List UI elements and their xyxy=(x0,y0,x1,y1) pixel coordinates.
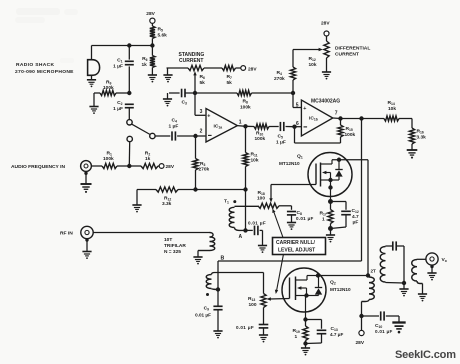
svg-text:0.01 μF: 0.01 μF xyxy=(236,325,254,330)
svg-text:28V: 28V xyxy=(248,66,257,72)
svg-text:100k: 100k xyxy=(240,104,251,110)
svg-text:10k: 10k xyxy=(388,106,396,112)
svg-text:2T: 2T xyxy=(371,268,377,273)
svg-text:1: 1 xyxy=(322,217,325,223)
svg-text:1 μF: 1 μF xyxy=(113,106,123,112)
svg-text:μF: μF xyxy=(353,220,359,226)
svg-text:1: 1 xyxy=(239,120,242,126)
svg-text:RADIO SHACK: RADIO SHACK xyxy=(16,62,54,68)
svg-text:CURRENT: CURRENT xyxy=(179,58,203,64)
svg-text:7: 7 xyxy=(335,111,338,117)
svg-text:5k: 5k xyxy=(227,80,233,86)
svg-text:1: 1 xyxy=(295,334,298,340)
svg-text:A: A xyxy=(239,234,243,240)
svg-text:0.01 μF: 0.01 μF xyxy=(248,220,266,225)
svg-text:TRIFILAR: TRIFILAR xyxy=(164,243,186,249)
svg-text:0.01 μF: 0.01 μF xyxy=(296,216,314,221)
svg-text:RF IN: RF IN xyxy=(60,231,73,237)
svg-text:28V: 28V xyxy=(166,164,175,170)
svg-text:5: 5 xyxy=(296,102,299,108)
svg-text:28V: 28V xyxy=(146,11,155,17)
svg-text:B: B xyxy=(221,256,225,262)
svg-text:270k: 270k xyxy=(274,76,285,82)
svg-text:+: + xyxy=(303,106,306,112)
svg-text:270k: 270k xyxy=(199,167,210,173)
svg-text:28V: 28V xyxy=(321,21,330,27)
svg-text:100: 100 xyxy=(249,302,257,308)
svg-text:10k: 10k xyxy=(251,158,259,164)
svg-text:4.7 μF: 4.7 μF xyxy=(330,332,343,337)
svg-text:4.7: 4.7 xyxy=(352,214,359,220)
svg-text:SeekIC.com: SeekIC.com xyxy=(395,349,456,361)
svg-text:1 μF: 1 μF xyxy=(169,124,179,130)
svg-text:28V: 28V xyxy=(356,340,365,346)
svg-text:1 μF: 1 μF xyxy=(113,64,123,70)
svg-text:1k: 1k xyxy=(145,156,151,162)
svg-text:100: 100 xyxy=(257,196,265,202)
svg-text:AUDIO FREQUENCY IN: AUDIO FREQUENCY IN xyxy=(11,164,65,170)
svg-text:CURRENT: CURRENT xyxy=(335,51,359,57)
svg-text:10k: 10k xyxy=(309,62,317,68)
svg-text:3: 3 xyxy=(200,109,203,115)
svg-text:10T: 10T xyxy=(164,237,172,243)
svg-text:MC34002AG: MC34002AG xyxy=(311,99,340,105)
svg-text:3.3k: 3.3k xyxy=(417,135,427,141)
svg-text:DIFFERENTIAL: DIFFERENTIAL xyxy=(335,45,370,51)
svg-text:5k: 5k xyxy=(200,80,206,86)
svg-text:1k: 1k xyxy=(142,62,148,68)
svg-text:MT12N10: MT12N10 xyxy=(279,161,300,166)
svg-text:0.01 μF: 0.01 μF xyxy=(195,313,211,318)
svg-text:LEVEL ADJUST: LEVEL ADJUST xyxy=(278,247,315,253)
svg-text:100k: 100k xyxy=(103,85,114,91)
svg-text:+: + xyxy=(207,114,210,120)
svg-text:100k: 100k xyxy=(255,136,266,142)
svg-text:MT12N10: MT12N10 xyxy=(330,287,351,292)
svg-text:3.3k: 3.3k xyxy=(162,201,172,207)
svg-text:5.6k: 5.6k xyxy=(158,33,168,39)
svg-text:100k: 100k xyxy=(103,156,114,162)
svg-text:2: 2 xyxy=(200,129,203,135)
svg-text:CARRIER NULL/: CARRIER NULL/ xyxy=(276,240,315,246)
svg-text:270-090 MICROPHONE: 270-090 MICROPHONE xyxy=(15,69,74,75)
svg-text:0.01 μF: 0.01 μF xyxy=(375,329,393,334)
svg-text:1 μF: 1 μF xyxy=(276,140,286,146)
svg-text:100k: 100k xyxy=(345,132,356,138)
svg-text:N = 325: N = 325 xyxy=(164,249,181,255)
